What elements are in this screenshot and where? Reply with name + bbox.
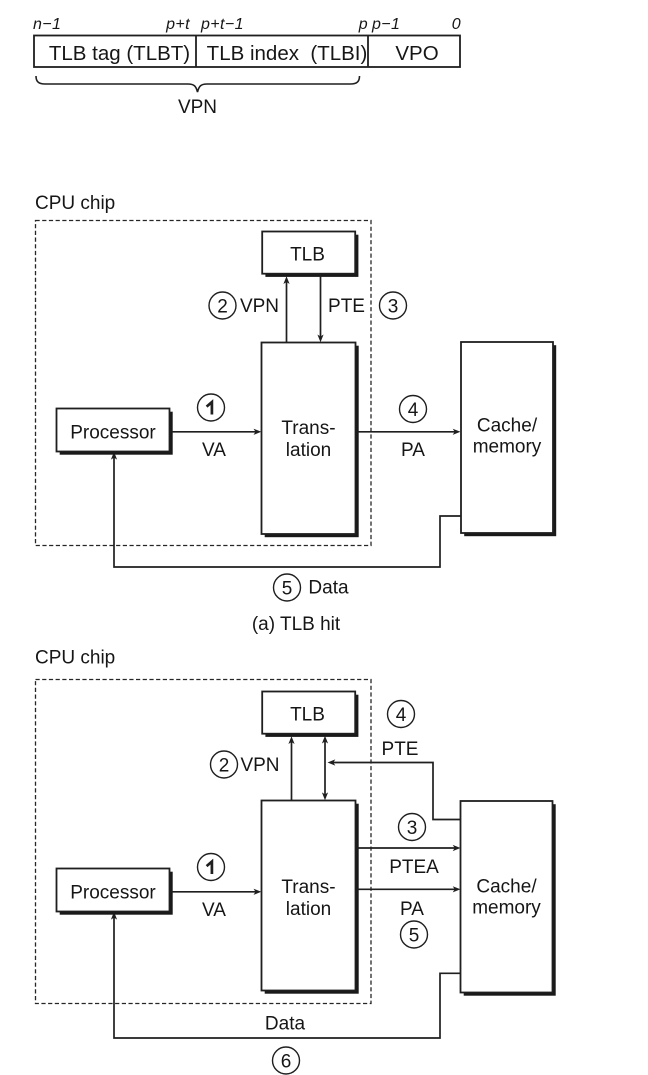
step circle 5 (a) xyxy=(274,574,301,601)
svg-text:5: 5 xyxy=(282,578,293,599)
svg-text:p+t: p+t xyxy=(165,16,190,33)
processor box (a) xyxy=(57,409,173,455)
svg-text:TLB tag (TLBT): TLB tag (TLBT) xyxy=(49,42,190,65)
wire data path (a) xyxy=(111,452,461,567)
wire PTEA arrow (b) xyxy=(356,845,461,851)
svg-text:VPN: VPN xyxy=(240,296,279,317)
svg-text:memory: memory xyxy=(473,437,542,458)
svg-text:VPN: VPN xyxy=(178,97,217,118)
svg-text:3: 3 xyxy=(388,296,399,317)
wire VPN arrow up (a) xyxy=(283,276,289,342)
svg-text:p: p xyxy=(358,16,368,33)
step circle 1 (b) xyxy=(198,854,225,881)
svg-text:VPN: VPN xyxy=(240,755,279,776)
svg-text:lation: lation xyxy=(286,440,331,461)
svg-text:Trans-: Trans- xyxy=(281,877,335,898)
svg-text:Processor: Processor xyxy=(70,423,156,444)
svg-text:PTEA: PTEA xyxy=(389,857,439,878)
svg-text:TLB: TLB xyxy=(290,245,325,266)
svg-text:PA: PA xyxy=(400,899,424,920)
svg-text:Processor: Processor xyxy=(70,883,156,904)
svg-text:6: 6 xyxy=(281,1051,292,1072)
svg-text:2: 2 xyxy=(219,755,230,776)
svg-text:0: 0 xyxy=(452,16,461,33)
wire PTE return elbow (b) xyxy=(328,759,461,819)
svg-text:3: 3 xyxy=(407,818,418,839)
TLB box (b) xyxy=(262,692,358,737)
wire VA arrow (b) xyxy=(170,889,262,895)
cache/memory box (b) xyxy=(461,801,556,996)
step circle 6 (b) xyxy=(273,1047,300,1074)
svg-text:2: 2 xyxy=(217,296,228,317)
translation box (a) xyxy=(262,343,359,538)
step circle 4 (a) xyxy=(400,396,427,423)
svg-text:n−1: n−1 xyxy=(33,16,61,33)
wire TLB-translation double arrow (b) xyxy=(322,736,328,801)
virtual address bit-field box xyxy=(34,36,460,68)
wire VA arrow (a) xyxy=(170,429,262,435)
step circle 1 (a) xyxy=(198,394,225,421)
step circle 3 (b) xyxy=(399,814,426,841)
TLB box (a) xyxy=(262,232,358,277)
dashed CPU chip boundary (b) xyxy=(36,680,372,1004)
dashed CPU chip boundary (a) xyxy=(36,221,372,546)
svg-text:lation: lation xyxy=(286,899,331,920)
svg-text:CPU chip: CPU chip xyxy=(35,193,115,214)
svg-text:memory: memory xyxy=(472,898,541,919)
svg-text:PTE: PTE xyxy=(328,296,365,317)
cache/memory box (a) xyxy=(461,342,556,536)
svg-text:VPO: VPO xyxy=(395,42,438,65)
svg-text:Trans-: Trans- xyxy=(281,418,335,439)
svg-text:PTE: PTE xyxy=(382,739,419,760)
svg-text:Cache/: Cache/ xyxy=(476,877,537,898)
svg-text:TLB: TLB xyxy=(290,705,325,726)
wire VPN arrow up (b) xyxy=(288,736,294,800)
wire PTE arrow down (a) xyxy=(317,274,323,343)
wire data path (b) xyxy=(111,912,461,1038)
step circle 5 (b) xyxy=(401,921,428,948)
svg-text:CPU chip: CPU chip xyxy=(35,648,115,669)
svg-text:Cache/: Cache/ xyxy=(477,416,538,437)
step circle 3 (a) xyxy=(380,292,407,319)
svg-text:p−1: p−1 xyxy=(371,16,400,33)
wire PA arrow (b) xyxy=(356,886,461,892)
svg-text:Data: Data xyxy=(265,1014,306,1035)
step circle 2 (b) xyxy=(211,751,238,778)
brace under VPN xyxy=(36,76,360,92)
svg-text:(a) TLB hit: (a) TLB hit xyxy=(252,614,341,635)
svg-text:4: 4 xyxy=(396,705,407,726)
svg-text:VA: VA xyxy=(202,900,226,921)
svg-text:VA: VA xyxy=(202,440,226,461)
svg-text:Data: Data xyxy=(308,578,349,599)
svg-text:PA: PA xyxy=(401,440,425,461)
step circle 2 (a) xyxy=(209,292,236,319)
wire PA arrow (a) xyxy=(356,429,461,435)
svg-text:TLB index (TLBI): TLB index (TLBI) xyxy=(207,42,368,65)
step circle 4 (b) xyxy=(388,701,415,728)
processor box (b) xyxy=(57,869,173,915)
translation box (b) xyxy=(262,801,359,994)
svg-text:4: 4 xyxy=(408,400,419,421)
svg-text:5: 5 xyxy=(409,925,420,946)
svg-text:p+t−1: p+t−1 xyxy=(200,16,244,33)
